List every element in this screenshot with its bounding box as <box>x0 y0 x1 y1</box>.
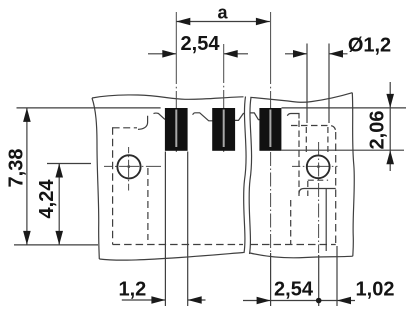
extension line outline bottom left (7.38 / 4.24 ref) <box>14 244 98 246</box>
svg-text:1,2: 1,2 <box>118 279 146 301</box>
centre line hole left horizontal <box>104 165 161 167</box>
dimension line 2,54 top <box>148 53 248 55</box>
dimension line 1,2 <box>122 299 206 301</box>
extension line pad3 centre below board <box>270 253 272 306</box>
arrowhead 2,06 bottom <box>386 150 394 164</box>
hidden outline below hole horizontal <box>308 179 328 181</box>
solder pad 2 <box>212 108 235 151</box>
extension line pad1 right edge <box>187 152 189 307</box>
dimension line O 1,2 <box>285 53 348 55</box>
pad 3 centre line over pad <box>269 110 271 148</box>
body break wave left of pad 1 <box>154 113 165 119</box>
hidden outline bottom edge left part <box>113 244 243 246</box>
arrowhead 1,02 <box>337 297 351 305</box>
hole right centre dot <box>317 165 319 167</box>
pad 1 centre line over pad <box>175 110 177 148</box>
arrowhead 1,2 right <box>188 296 202 304</box>
dimension line a <box>176 21 270 23</box>
junction dot 2,54 / 1,02 <box>316 298 322 304</box>
board outline top edge left part <box>92 95 244 99</box>
arrowhead 2,06 top <box>386 94 394 108</box>
mounting hole left <box>117 155 140 178</box>
housing edge below hole with corner <box>299 189 336 197</box>
extension line hole centre below board <box>318 255 320 306</box>
extension line hole center left (4.24 ref) <box>47 163 91 165</box>
svg-text:Ø1,2: Ø1,2 <box>348 35 391 57</box>
svg-text:2,54: 2,54 <box>181 33 221 55</box>
solder pad 3 <box>259 108 281 151</box>
arrowhead a left <box>176 18 190 26</box>
hidden outline below hole left vertical <box>307 181 309 196</box>
board outline bottom edge right part <box>250 253 353 258</box>
centre line hole right horizontal <box>292 165 338 167</box>
arrowhead 2,54 top left <box>162 50 176 58</box>
hole left centre dot <box>128 165 130 167</box>
centre line pad 1 <box>175 12 177 152</box>
svg-text:2,06: 2,06 <box>367 111 389 150</box>
extension line pad top right (2.06 ref) <box>282 107 407 109</box>
dimension line 7,38 <box>26 108 28 245</box>
body break wave right of pad 3 <box>287 114 299 119</box>
extension line hole diameter right tangent <box>328 44 330 124</box>
mounting hole right <box>307 155 330 178</box>
arrowhead 4,24 top <box>55 164 63 178</box>
centre line hole right vertical <box>318 142 320 253</box>
hidden outline right part: step left vertical <box>298 121 300 194</box>
solder pad 1 <box>165 108 188 151</box>
board break tear line left <box>244 97 246 254</box>
centre line pad 3 <box>270 12 272 108</box>
dimension line 2,54 / 1,02 bottom <box>243 300 355 302</box>
board outline right edge <box>352 93 354 257</box>
arrowhead 2,54 bottom <box>257 297 271 305</box>
arrowhead 7,38 top <box>23 108 31 122</box>
dimension line 2,06 <box>389 82 391 171</box>
pad 2 centre line over pad <box>223 110 225 148</box>
hidden outline inner step left <box>147 168 149 240</box>
svg-text:2,54: 2,54 <box>274 279 314 301</box>
housing edge right of hole <box>325 189 327 251</box>
hidden outline left part: left edge <box>112 127 114 244</box>
centre line hole left vertical <box>128 147 130 191</box>
extension line pad1 left edge <box>164 152 166 307</box>
svg-text:a: a <box>217 2 228 22</box>
hidden outline right part: right edge <box>335 132 337 245</box>
body break wave between tear and pad 3 <box>250 113 260 120</box>
board outline top edge right part <box>250 93 352 103</box>
board outline left edge <box>92 98 99 259</box>
hidden outline slot above hole left side <box>305 127 307 155</box>
centre line pad 2 <box>223 44 225 152</box>
svg-text:7,38: 7,38 <box>6 149 28 188</box>
arrowhead 2,54 top right <box>224 50 238 58</box>
hidden outline right part: step left vertical lower <box>290 200 292 245</box>
arrowhead 7,38 bottom <box>23 231 31 245</box>
arrowhead a right <box>256 18 270 26</box>
board outline bottom edge left part <box>99 253 243 261</box>
extension line hole diameter left tangent <box>306 44 308 124</box>
hidden outline right part: top edge with corner <box>291 126 336 133</box>
dimension line 4,24 <box>58 164 60 245</box>
extension line pad bottom right (2.06 ref) <box>282 149 405 151</box>
arrowhead O1,2 right <box>329 50 343 58</box>
arrowhead O1,2 left <box>293 50 307 58</box>
extension line pad top left (7.38 ref) <box>17 107 161 109</box>
body break wave between pad 2 and tear <box>234 113 245 120</box>
hidden outline bottom edge right part <box>251 244 336 246</box>
hidden outline left part: top step <box>113 127 137 129</box>
svg-text:1,02: 1,02 <box>356 279 395 301</box>
body break wave between pad 1 and pad 2 <box>193 113 213 121</box>
arrowhead 4,24 bottom <box>55 231 63 245</box>
svg-text:4,24: 4,24 <box>36 179 58 219</box>
arrowhead 1,2 left <box>151 296 165 304</box>
board break tear line right <box>249 98 251 255</box>
body step hook left of pad 1 <box>138 116 148 130</box>
extension line outline right edge below board <box>336 246 338 306</box>
hidden outline slot above hole right side <box>327 127 329 155</box>
